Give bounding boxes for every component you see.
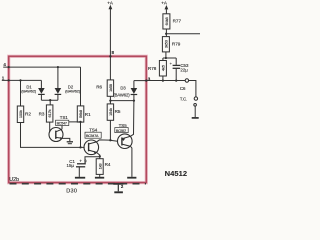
chassis terminal pin 2 below rail	[113, 184, 123, 192]
junction D2 top	[57, 66, 59, 68]
wire TS4 collector to TS5 base	[97, 140, 118, 142]
wire R5 top stub	[109, 101, 111, 104]
svg-text:(BAW62): (BAW62)	[113, 92, 130, 97]
wire TS4 emitter down	[97, 152, 100, 158]
wire TS5 collector down to ground	[131, 146, 132, 177]
svg-text:R3: R3	[39, 112, 45, 117]
wire R2 bottom to TS4 base	[21, 123, 85, 148]
resistor R1	[77, 106, 84, 122]
svg-text:+A: +A	[161, 1, 168, 6]
junction pin3 on red border	[145, 79, 147, 81]
wire TS1 emitter to ground	[63, 138, 70, 141]
svg-text:BC547: BC547	[57, 122, 67, 126]
junction emitter node	[99, 155, 101, 157]
svg-text:4k5: 4k5	[161, 64, 166, 71]
capacitor C1	[76, 164, 86, 177]
red highlight box U2b region	[9, 56, 147, 182]
wire R5 bottom down to TS5 base net	[109, 120, 111, 140]
resistor R78	[159, 61, 166, 77]
wire pin4 corner down to R1 top	[80, 67, 82, 106]
svg-text:1k8: 1k8	[97, 163, 102, 170]
svg-text:64k8: 64k8	[164, 16, 169, 25]
capacitor C53	[173, 58, 181, 81]
transistor TS4	[84, 140, 99, 155]
svg-text:D30: D30	[66, 189, 77, 195]
resistor R3	[46, 105, 53, 122]
junction R5/bus	[109, 99, 111, 101]
diode D3	[131, 81, 138, 101]
svg-text:TS5: TS5	[119, 123, 128, 128]
svg-text:R5: R5	[115, 109, 121, 114]
wire R3 top stub	[49, 100, 51, 105]
supply +A (right)	[161, 1, 168, 10]
svg-text:T.C.: T.C.	[180, 96, 187, 101]
svg-text:C6: C6	[180, 86, 186, 91]
wire R78 bottom stub	[162, 76, 164, 81]
svg-text:1k58: 1k58	[108, 83, 113, 92]
wire C6 to T.C. corner	[189, 81, 196, 97]
wire R6 bottom to bus	[109, 96, 111, 100]
svg-text:N4512: N4512	[165, 169, 188, 178]
svg-text:R1: R1	[85, 112, 91, 117]
diode D2	[55, 67, 62, 100]
svg-text:BC557: BC557	[116, 129, 126, 133]
wire R2 top stub	[20, 80, 22, 106]
wire emitter node to C1	[85, 157, 100, 164]
wire TS1 collector	[62, 122, 81, 129]
wire R3 bottom to TS1 base	[49, 122, 51, 132]
resistor R2	[17, 106, 23, 123]
junction on red border (pin 8)	[109, 55, 111, 57]
junction R78 bottom	[162, 79, 164, 81]
wire +A left down to R6	[109, 9, 111, 80]
svg-text:22µ: 22µ	[180, 68, 188, 73]
wire bus	[110, 100, 133, 102]
transistor TS5	[118, 134, 133, 149]
wire R1 bottom down to TS4 base	[80, 122, 82, 147]
wire pin4 input	[3, 66, 80, 68]
junction TS4 base	[79, 146, 81, 148]
connector T.C.	[194, 97, 197, 100]
junction C53 bottom	[175, 79, 177, 81]
supply +A (left)	[107, 0, 114, 9]
svg-text:R78: R78	[148, 66, 157, 71]
junction R3 top	[49, 99, 51, 101]
svg-text:+A: +A	[107, 0, 114, 5]
ground bar (C1)	[75, 177, 85, 179]
svg-text:154k: 154k	[108, 108, 113, 116]
junction pin1 on red border	[8, 79, 10, 81]
svg-text:R2: R2	[25, 111, 31, 116]
transistor TS1	[49, 128, 63, 142]
wire pin3 net: D3 anode to border	[134, 80, 146, 82]
svg-text:R79: R79	[172, 41, 181, 46]
svg-text:(BAW62): (BAW62)	[65, 89, 81, 94]
svg-text:TS4: TS4	[89, 127, 98, 132]
dashed ground bus along bottom	[10, 183, 147, 185]
svg-text:100k: 100k	[18, 110, 23, 118]
wire R4 bottom stub	[99, 174, 101, 177]
resistor R6	[107, 80, 113, 96]
wire TS5 emitter up to bus	[130, 101, 134, 137]
svg-text:TS1: TS1	[60, 115, 69, 120]
junction split	[165, 57, 167, 59]
svg-text:(BAW62): (BAW62)	[21, 88, 37, 93]
junction R2 top	[19, 79, 21, 81]
svg-text:617k: 617k	[47, 109, 52, 117]
terminal post below T.C.	[192, 104, 199, 118]
svg-text:D3: D3	[120, 86, 126, 91]
ground bar (TS5)	[127, 177, 136, 179]
svg-text:56k8: 56k8	[78, 109, 83, 118]
diode D1	[38, 80, 45, 100]
wire pin1 input	[2, 79, 42, 81]
svg-text:R4: R4	[105, 162, 111, 167]
svg-text:U2b: U2b	[9, 177, 19, 183]
svg-text:15µ: 15µ	[67, 163, 75, 168]
svg-text:R6: R6	[96, 85, 102, 90]
resistor R4	[96, 159, 103, 175]
wire pin3 net outside box to C6	[146, 80, 185, 82]
wire junction to right edge	[166, 33, 200, 35]
red highlight box glow	[9, 56, 147, 182]
label BC547 boxed (TS1)	[56, 120, 69, 125]
svg-text:R77: R77	[173, 18, 182, 23]
junction R5 / base wire	[109, 139, 111, 141]
wire diode cathode bus	[41, 99, 58, 101]
svg-text:3k50: 3k50	[164, 39, 169, 48]
svg-text:BC547A: BC547A	[86, 134, 99, 138]
wire R79 bottom to split	[165, 52, 167, 58]
resistor R77	[163, 14, 170, 29]
label BC557 boxed (TS5)	[115, 128, 128, 133]
wire R78 top stub	[162, 58, 164, 61]
label BC547A boxed (TS4)	[85, 132, 101, 138]
junction D3/bus	[133, 99, 135, 101]
ground bar (R4)	[95, 177, 104, 179]
junction TS1 collector	[79, 121, 81, 123]
junction R77/R79	[165, 33, 167, 35]
ground (TS1 emitter)	[67, 142, 73, 144]
wire R77 bottom	[165, 29, 167, 37]
wire +A right down to R77	[165, 9, 167, 14]
resistor R79	[162, 37, 169, 52]
junction pin4 on red border	[8, 66, 10, 68]
wire split top	[163, 57, 176, 59]
connector C6	[185, 79, 188, 82]
resistor R5	[107, 104, 113, 120]
